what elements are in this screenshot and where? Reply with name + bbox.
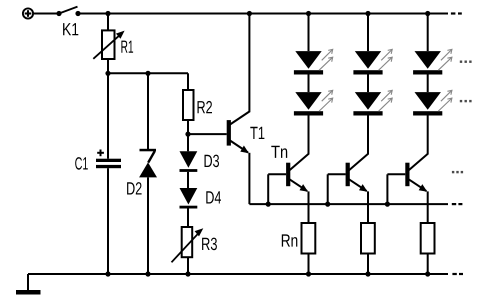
LED light arrows column 2 upper [379,49,393,70]
switch K1 [56,7,80,16]
label R2 [198,101,213,113]
node junction top rail T1 [247,11,252,16]
node junction at D2 top [145,71,150,76]
label Tn [271,146,287,158]
wire node to R2 [187,73,189,90]
wire base node to T1 [188,133,227,135]
wire base rail [249,203,448,205]
label R3 [202,238,217,251]
resistor R2 [183,90,194,120]
terminal + supply input [23,8,33,18]
label T1 [250,127,264,139]
wire terminal to switch [34,13,59,15]
transistor Tn column 3 [385,154,435,277]
LED string column 1 [294,11,323,155]
node junction ground rail R3 [185,271,190,276]
wire D3 to D4 [187,172,189,188]
LED light arrows column 3 lower [438,90,452,111]
label Rn [282,234,298,246]
wire T1 emitter down [248,153,250,204]
LED light arrows column 3 upper [438,49,452,70]
diode D4 [180,188,198,209]
wire T1 collector to top rail [248,14,250,113]
label C1 [75,157,88,170]
wire D4 to R3 [187,209,189,228]
resistor R1 (variable) [93,30,124,59]
ellipsis transistor row [452,171,463,173]
wire C1 to ground rail [107,168,109,274]
capacitor C1 [96,150,121,169]
label K1 [63,23,78,35]
wire top rail [78,13,448,15]
ground symbol [16,274,41,295]
wire R2 to base node [187,120,189,151]
wire node to D2 [147,73,149,150]
diode D3 [180,151,198,172]
wire R1 to node row [107,59,109,73]
node junction ground rail C1 [105,271,110,276]
wire ground rail [28,273,448,275]
wire R3 to ground rail [187,257,189,274]
node junction at C1 top [105,71,110,76]
LED string column 2 [353,11,382,155]
label D2 [127,182,142,194]
label D3 [205,155,220,168]
transistor T1 [227,112,250,154]
ground rail continuation dashes [452,273,463,275]
node junction top rail at R1 [105,11,110,16]
wire node row horizontal [108,72,188,74]
transistor Tn column 1 [266,154,316,277]
LED light arrows column 1 upper [319,49,333,70]
zener diode D2 [139,149,157,178]
wire node to C1 [107,73,109,158]
resistor R3 (variable) [172,227,204,262]
ellipsis LED row 1 [460,61,472,63]
top rail continuation dashes [451,12,462,14]
LED light arrows column 2 lower [379,90,393,111]
ellipsis LED row 2 [460,100,472,102]
LED string column 3 [413,11,442,155]
base rail continuation dashes [452,203,463,205]
label D4 [206,191,221,203]
node junction T1 base tap [185,132,190,137]
transistor Tn column 2 [325,154,375,277]
wire rail to R1 [107,14,109,31]
LED light arrows column 1 lower [319,90,333,111]
label R1 [121,41,133,53]
wire D2 to ground rail [147,177,149,274]
node junction ground rail D2 [145,271,150,276]
